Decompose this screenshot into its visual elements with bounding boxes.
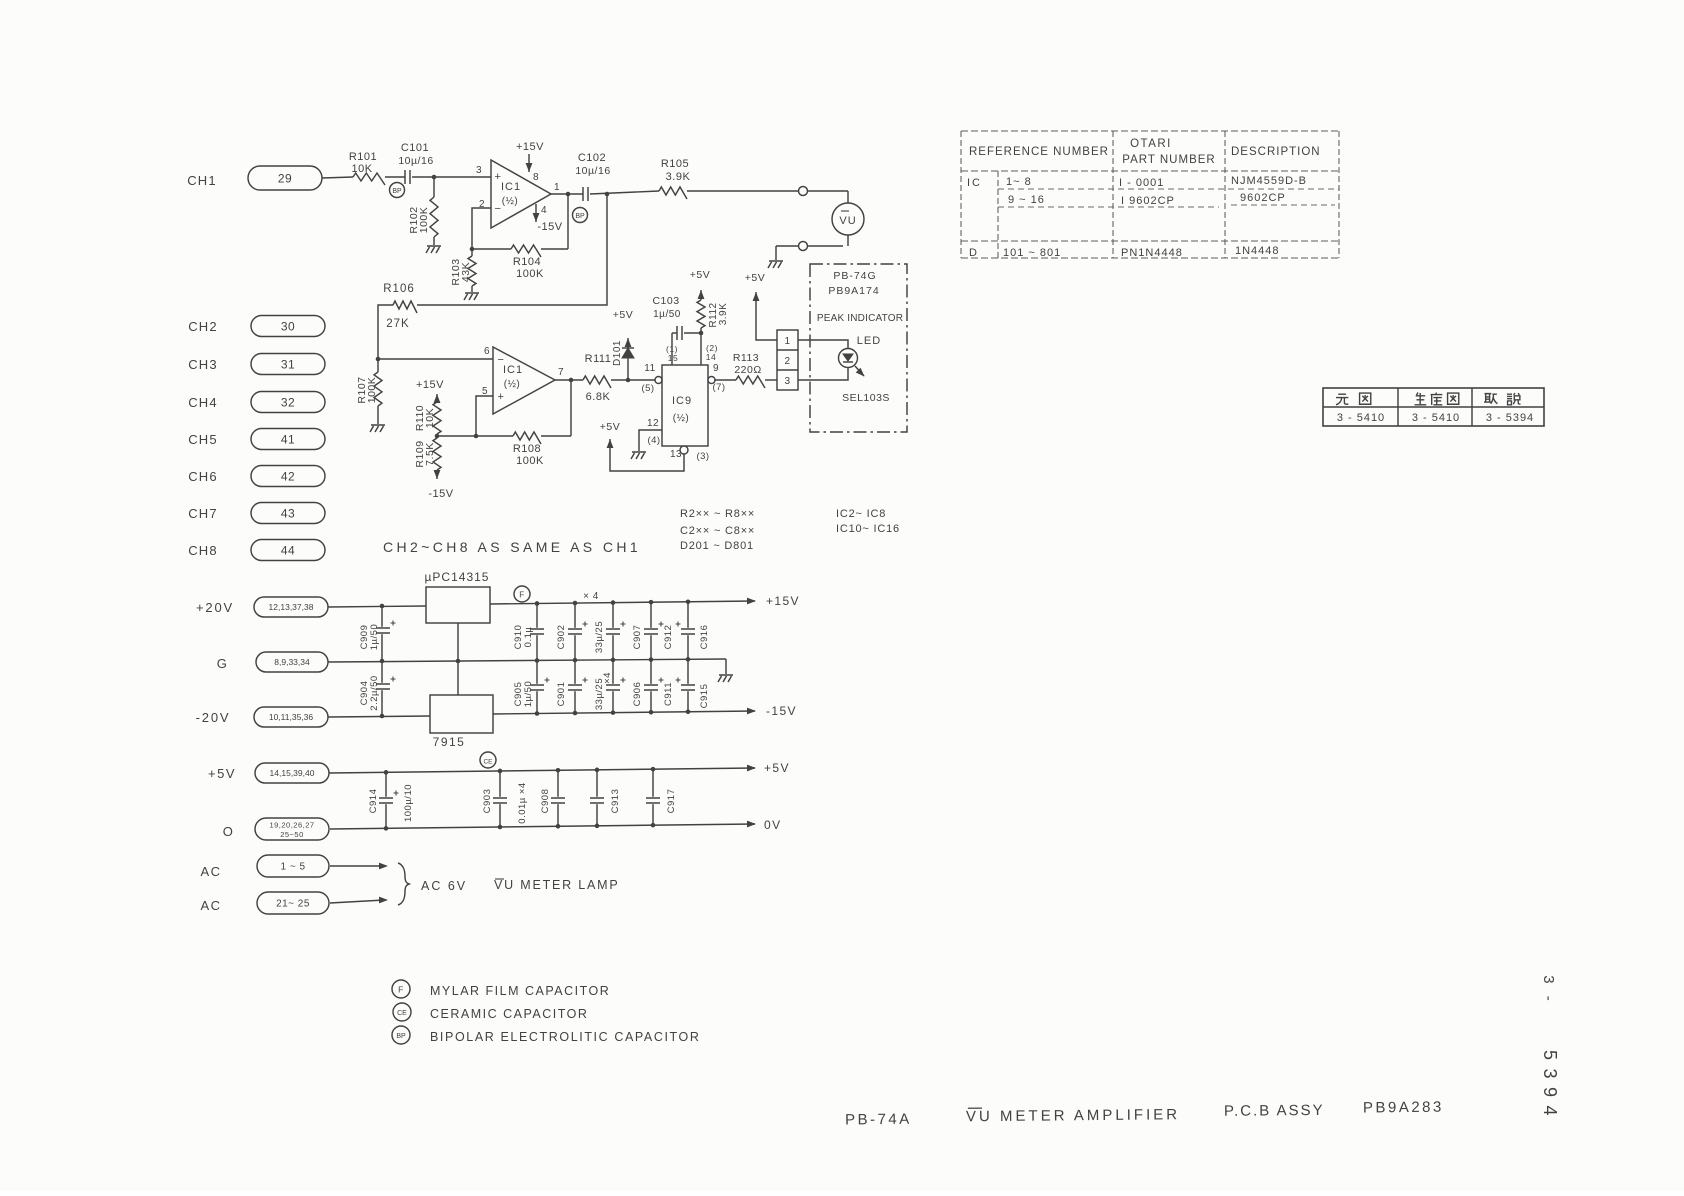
svg-text:D101: D101: [612, 340, 623, 366]
svg-text:VU: VU: [839, 215, 856, 227]
svg-text:CE: CE: [483, 759, 493, 766]
svg-text:7.5K: 7.5K: [424, 442, 436, 466]
svg-text:CH1: CH1: [187, 173, 217, 188]
svg-text:C915: C915: [699, 684, 710, 709]
svg-text:1: 1: [554, 182, 560, 193]
svg-text:R108: R108: [513, 443, 541, 455]
svg-text:3 - 5410: 3 - 5410: [1412, 412, 1460, 424]
svg-text:R2×× ~ R8××: R2×× ~ R8××: [680, 508, 755, 520]
svg-text:43K: 43K: [460, 262, 472, 282]
svg-text:0V: 0V: [764, 818, 781, 832]
svg-text:10µ/16: 10µ/16: [575, 165, 610, 177]
svg-text:32: 32: [281, 395, 295, 409]
svg-text:P.C.B ASSY: P.C.B ASSY: [1224, 1102, 1325, 1120]
svg-text:CE: CE: [397, 1010, 407, 1017]
svg-text:CH5: CH5: [188, 432, 218, 447]
svg-text:8,9,33,34: 8,9,33,34: [274, 657, 310, 667]
svg-text:R111: R111: [585, 353, 612, 365]
svg-text:-15V: -15V: [537, 221, 562, 233]
svg-text:(½): (½): [504, 379, 521, 390]
svg-text:21~ 25: 21~ 25: [276, 899, 310, 910]
svg-text:BP: BP: [392, 188, 402, 195]
svg-text:F: F: [398, 985, 404, 995]
svg-text:+15V: +15V: [766, 594, 800, 608]
svg-text:9602CP: 9602CP: [1240, 192, 1286, 204]
svg-text:9 ~ 16: 9 ~ 16: [1008, 194, 1045, 206]
svg-text:10µ/16: 10µ/16: [398, 155, 433, 167]
svg-text:PN1N4448: PN1N4448: [1121, 247, 1183, 259]
svg-text:7: 7: [558, 367, 564, 378]
svg-text:10K: 10K: [351, 163, 372, 175]
svg-text:CERAMIC CAPACITOR: CERAMIC CAPACITOR: [430, 1007, 588, 1021]
svg-text:+: +: [498, 391, 505, 403]
svg-text:+5V: +5V: [613, 309, 633, 321]
svg-text:2: 2: [784, 356, 790, 367]
svg-text:1µ/50: 1µ/50: [523, 681, 534, 707]
svg-text:× 4: × 4: [583, 591, 599, 602]
svg-text:1µ/50: 1µ/50: [369, 624, 380, 650]
svg-text:(7): (7): [712, 382, 725, 393]
svg-text:3 -: 3 -: [1540, 975, 1557, 1005]
svg-text:25~50: 25~50: [280, 830, 304, 839]
svg-text:220Ω: 220Ω: [734, 364, 761, 376]
svg-text:+5V: +5V: [208, 766, 236, 781]
svg-text:1~ 8: 1~ 8: [1006, 176, 1032, 188]
svg-text:F: F: [519, 591, 524, 600]
svg-text:CH2~CH8 AS SAME AS CH1: CH2~CH8 AS SAME AS CH1: [383, 539, 641, 555]
svg-text:1: 1: [784, 336, 790, 347]
svg-text:BP: BP: [575, 213, 585, 220]
svg-text:C911: C911: [663, 682, 674, 706]
svg-text:27K: 27K: [386, 318, 409, 330]
svg-text:C907: C907: [632, 625, 643, 650]
svg-text:BP: BP: [396, 1033, 406, 1040]
svg-text:LED: LED: [857, 335, 881, 347]
svg-text:43: 43: [281, 506, 295, 520]
svg-text:MYLAR FILM CAPACITOR: MYLAR FILM CAPACITOR: [430, 984, 610, 998]
svg-text:30: 30: [281, 319, 295, 333]
svg-text:101 ~ 801: 101 ~ 801: [1003, 247, 1061, 259]
svg-text:CH3: CH3: [188, 357, 218, 372]
svg-text:IC: IC: [967, 177, 982, 189]
svg-text:C906: C906: [632, 682, 643, 707]
svg-text:3.9K: 3.9K: [666, 171, 691, 183]
svg-text:3: 3: [476, 165, 482, 176]
svg-text:+5V: +5V: [600, 421, 620, 433]
svg-text:100K: 100K: [516, 455, 544, 467]
svg-text:R106: R106: [383, 283, 415, 295]
svg-text:15: 15: [668, 353, 678, 363]
svg-text:(3): (3): [696, 451, 709, 462]
svg-text:100K: 100K: [418, 207, 430, 234]
svg-text:100K: 100K: [366, 377, 378, 404]
svg-text:IC10~ IC16: IC10~ IC16: [836, 523, 900, 535]
svg-text:3 - 5394: 3 - 5394: [1486, 412, 1534, 424]
svg-text:7915: 7915: [433, 735, 466, 749]
svg-text:+5V: +5V: [764, 761, 790, 775]
svg-text:IC1: IC1: [503, 364, 523, 376]
svg-text:VU METER AMPLIFIER: VU METER AMPLIFIER: [966, 1106, 1180, 1125]
svg-text:6: 6: [484, 346, 490, 357]
svg-text:G: G: [217, 656, 228, 671]
svg-text:DESCRIPTION: DESCRIPTION: [1231, 146, 1321, 158]
svg-text:CH2: CH2: [188, 319, 218, 334]
svg-text:12: 12: [647, 418, 659, 429]
svg-text:R105: R105: [661, 158, 689, 170]
svg-text:C101: C101: [401, 142, 429, 154]
svg-text:-15V: -15V: [766, 704, 797, 718]
svg-text:CH4: CH4: [188, 395, 218, 410]
svg-text:11: 11: [644, 363, 655, 374]
svg-text:C902: C902: [556, 625, 567, 650]
svg-text:41: 41: [281, 432, 295, 446]
svg-text:C916: C916: [699, 625, 710, 650]
svg-text:14,15,39,40: 14,15,39,40: [270, 768, 315, 778]
svg-text:+5V: +5V: [690, 269, 710, 281]
svg-text:OTARI: OTARI: [1130, 138, 1172, 150]
svg-text:NJM4559D-B: NJM4559D-B: [1231, 175, 1307, 187]
svg-text:PEAK INDICATOR: PEAK INDICATOR: [817, 313, 903, 324]
svg-text:29: 29: [278, 171, 292, 185]
svg-text:PB-74A: PB-74A: [845, 1111, 912, 1129]
svg-text:VU METER LAMP: VU METER LAMP: [494, 878, 620, 892]
svg-text:5394: 5394: [1540, 1050, 1560, 1124]
svg-text:R113: R113: [733, 352, 759, 364]
svg-text:C914: C914: [368, 789, 379, 814]
svg-text:C912: C912: [663, 625, 674, 650]
svg-text:AC: AC: [200, 898, 221, 913]
svg-text:(5): (5): [641, 383, 654, 394]
svg-text:C901: C901: [556, 682, 567, 707]
svg-text:I - 0001: I - 0001: [1119, 177, 1164, 189]
svg-text:−: −: [495, 203, 502, 215]
svg-text:C903: C903: [482, 789, 493, 814]
svg-text:0.1µ: 0.1µ: [523, 627, 534, 648]
svg-text:C913: C913: [610, 789, 621, 814]
svg-text:C102: C102: [578, 152, 606, 164]
svg-text:0.01µ ×4: 0.01µ ×4: [517, 782, 528, 823]
svg-text:2.2µ/50: 2.2µ/50: [369, 675, 380, 710]
svg-text:C103: C103: [652, 295, 679, 307]
svg-text:CH7: CH7: [188, 506, 218, 521]
svg-text:10K: 10K: [424, 408, 436, 428]
svg-text:8: 8: [533, 172, 539, 183]
svg-text:9: 9: [713, 363, 719, 374]
svg-text:O: O: [223, 824, 234, 839]
svg-text:1µ/50: 1µ/50: [653, 309, 681, 320]
svg-text:IC9: IC9: [672, 395, 692, 407]
svg-text:12,13,37,38: 12,13,37,38: [269, 602, 314, 612]
svg-text:BIPOLAR ELECTROLITIC CAPACIT: BIPOLAR ELECTROLITIC CAPACITOR: [430, 1030, 701, 1044]
svg-text:10,11,35,36: 10,11,35,36: [269, 712, 314, 722]
svg-text:3: 3: [784, 376, 790, 387]
svg-text:1 ~ 5: 1 ~ 5: [280, 862, 305, 873]
svg-text:-15V: -15V: [428, 488, 453, 500]
svg-text:CH8: CH8: [188, 543, 218, 558]
svg-text:+15V: +15V: [416, 379, 444, 391]
svg-text:D: D: [969, 247, 978, 259]
svg-text:+15V: +15V: [516, 141, 544, 153]
svg-text:PB9A174: PB9A174: [828, 285, 879, 297]
svg-text:AC: AC: [200, 864, 221, 879]
svg-text:R104: R104: [513, 256, 541, 268]
svg-text:13: 13: [670, 449, 682, 460]
svg-text:(½): (½): [673, 413, 690, 424]
svg-text:C2×× ~ C8××: C2×× ~ C8××: [680, 525, 755, 537]
svg-text:C908: C908: [540, 789, 551, 814]
svg-text:IC2~ IC8: IC2~ IC8: [836, 508, 886, 520]
svg-text:6.8K: 6.8K: [586, 391, 611, 403]
svg-text:31: 31: [281, 357, 295, 371]
svg-text:14: 14: [706, 352, 716, 362]
svg-text:D201 ~ D801: D201 ~ D801: [680, 540, 754, 552]
svg-text:REFERENCE NUMBER: REFERENCE NUMBER: [969, 146, 1109, 158]
svg-text:µPC14315: µPC14315: [425, 570, 490, 584]
svg-text:R101: R101: [349, 151, 377, 163]
svg-text:(½): (½): [502, 196, 519, 207]
svg-text:3.9K: 3.9K: [718, 303, 729, 326]
svg-text:PB-74G: PB-74G: [833, 270, 876, 282]
svg-text:×4: ×4: [602, 672, 613, 684]
svg-text:+5V: +5V: [745, 272, 765, 284]
svg-text:PART NUMBER: PART NUMBER: [1122, 154, 1215, 166]
svg-text:I 9602CP: I 9602CP: [1121, 195, 1175, 207]
svg-text:42: 42: [281, 469, 295, 483]
svg-text:IC1: IC1: [501, 181, 521, 193]
svg-text:+20V: +20V: [196, 600, 234, 615]
svg-text:44: 44: [281, 543, 295, 557]
svg-text:AC 6V: AC 6V: [421, 879, 467, 893]
svg-text:SEL103S: SEL103S: [842, 392, 890, 404]
svg-text:100K: 100K: [516, 268, 544, 280]
svg-text:33µ/25: 33µ/25: [594, 621, 605, 653]
svg-text:PB9A283: PB9A283: [1363, 1099, 1444, 1117]
svg-text:100µ/10: 100µ/10: [403, 784, 414, 822]
svg-text:1N4448: 1N4448: [1235, 245, 1280, 257]
svg-text:3 - 5410: 3 - 5410: [1337, 412, 1385, 424]
svg-text:(4): (4): [647, 435, 660, 446]
svg-text:4: 4: [541, 205, 547, 216]
svg-text:-20V: -20V: [196, 710, 231, 725]
svg-text:19,20,26,27: 19,20,26,27: [269, 821, 314, 830]
svg-text:C917: C917: [666, 789, 677, 814]
svg-text:CH6: CH6: [188, 469, 218, 484]
